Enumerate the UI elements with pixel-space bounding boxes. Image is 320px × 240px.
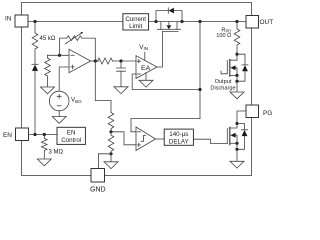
wire Q2 source to ground	[236, 75, 238, 92]
svg-text:100 Ω: 100 Ω	[216, 33, 231, 39]
output discharge NMOS Q2	[210, 54, 238, 91]
wire U1 non-inverting input	[59, 67, 69, 91]
svg-text:3 MΩ: 3 MΩ	[49, 150, 64, 156]
wire PG pin to drain	[237, 111, 246, 124]
svg-text:GND: GND	[90, 187, 106, 194]
ground under VBG	[52, 117, 66, 124]
ground under 3M	[37, 159, 51, 166]
pin PG	[246, 105, 272, 118]
node PG drain	[235, 122, 238, 125]
body diode of Q1	[156, 8, 182, 22]
comparator U2	[136, 127, 156, 151]
ground under Q3	[230, 161, 244, 168]
node filter cap	[119, 59, 122, 62]
IC boundary	[22, 3, 252, 176]
node U1 output / VREF	[94, 59, 97, 62]
wire OUT sense vertical	[199, 22, 201, 119]
PG NMOS Q3	[227, 124, 238, 145]
node EN/diode junction	[33, 133, 36, 136]
ground under Rg	[41, 87, 55, 94]
node pass drain	[180, 20, 183, 23]
node divider tap	[109, 130, 112, 133]
resistor 3 MOhm	[42, 135, 64, 160]
wire U1 output	[91, 60, 99, 62]
node EA feedback tap	[198, 88, 201, 91]
ground under divider	[104, 162, 118, 169]
variable resistor Rfb	[65, 32, 83, 44]
node RPD tap	[235, 20, 238, 23]
pin OUT	[246, 16, 273, 29]
node OUT sense tap	[198, 20, 201, 23]
pin EN	[3, 128, 29, 141]
EN Control block	[57, 127, 85, 144]
svg-text:Discharge: Discharge	[210, 86, 235, 92]
pass PMOS Q1	[157, 22, 180, 32]
svg-text:PG: PG	[263, 110, 272, 117]
wire VREF to divider	[95, 61, 111, 113]
svg-text:Current: Current	[125, 16, 146, 23]
VIN supply stem of EA	[139, 44, 148, 61]
wire to EA input	[113, 60, 137, 62]
resistor RPD 100 Ohm	[216, 22, 240, 55]
diode D1	[32, 64, 38, 134]
ground stem of EA	[145, 73, 147, 80]
ground under EA	[139, 80, 153, 87]
svg-text:EN: EN	[3, 132, 12, 139]
pin IN	[5, 15, 28, 27]
node divider bottom	[109, 152, 112, 155]
ground under capacitor	[114, 87, 128, 94]
wire delay to PG gate	[193, 139, 227, 143]
node RPD bottom / discharge drain	[235, 53, 238, 56]
wire OUT rail	[149, 21, 246, 23]
Current Limit block	[123, 14, 149, 30]
svg-text:45 kΩ: 45 kΩ	[40, 36, 56, 42]
140-us DELAY block	[164, 129, 193, 145]
wire EN rail	[29, 134, 58, 136]
svg-text:Control: Control	[61, 137, 81, 144]
resistor Rg to ground	[45, 55, 51, 87]
resistor divider R2	[108, 132, 114, 154]
wire comparator output	[156, 138, 165, 140]
svg-text:IN: IN	[5, 16, 12, 23]
pin GND	[90, 169, 106, 194]
wire feedback loop	[60, 38, 96, 61]
wire divider bottom to ground	[110, 154, 112, 162]
capacitor filter	[117, 61, 126, 87]
wire comparator sense	[131, 119, 200, 132]
body diode of Q2	[235, 54, 248, 83]
ground under Q2	[230, 92, 244, 99]
wire EA inverting input to OUT sense	[132, 74, 200, 90]
op-amp U1	[69, 49, 91, 72]
resistor filter	[98, 58, 113, 64]
resistor divider R1	[108, 113, 114, 132]
wire VBG to ground	[58, 111, 60, 117]
wire divider tap to comparator	[111, 132, 136, 145]
svg-text:Output: Output	[215, 79, 232, 85]
error amplifier EA	[136, 56, 157, 79]
voltage source VBG	[49, 91, 82, 111]
svg-text:Limit: Limit	[129, 23, 142, 30]
svg-text:VIN: VIN	[139, 44, 148, 51]
wire IN rail	[28, 21, 123, 23]
svg-text:140-µs: 140-µs	[169, 131, 188, 138]
svg-text:DELAY: DELAY	[169, 138, 189, 145]
svg-text:EN: EN	[67, 129, 76, 136]
node IN rail / 45k tap	[33, 20, 36, 23]
svg-text:EA: EA	[141, 65, 151, 72]
node EN/3M junction	[43, 133, 46, 136]
resistor 45 kOhm	[32, 22, 56, 65]
wire divider bottom to GND pin	[98, 154, 111, 169]
wire Q3 source to ground	[236, 143, 238, 161]
body diode of Q3	[235, 124, 247, 151]
svg-text:OUT: OUT	[260, 19, 274, 26]
node pass source	[154, 20, 157, 23]
wire EA output to pass gate	[157, 31, 163, 67]
node U1 inverting input	[58, 54, 61, 57]
svg-text:VBG: VBG	[71, 97, 82, 104]
wire U1 inverting input	[48, 54, 70, 56]
